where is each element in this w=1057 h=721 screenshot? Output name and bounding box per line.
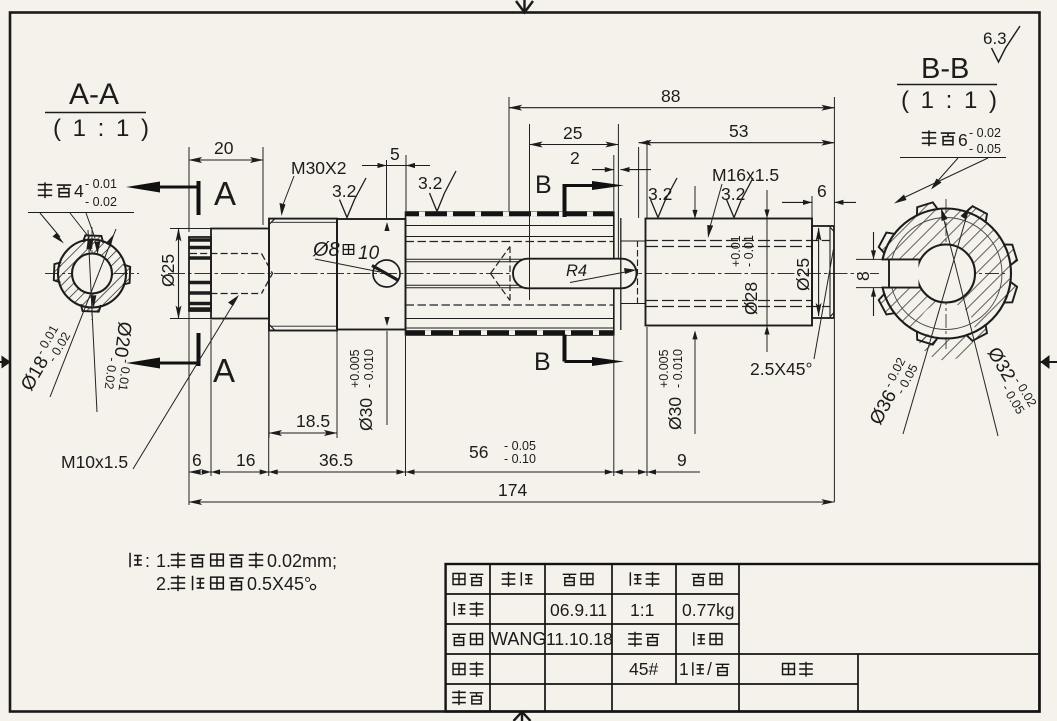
svg-text:- 0.010: - 0.010 [362,349,376,388]
A-A dim Ø20 (rotated) [87,230,138,412]
dim Ø28 label [729,210,770,335]
svg-text:- 0.010: - 0.010 [671,349,685,388]
surface mark 3.2 #4 [721,178,753,218]
svg-text:- 0.05: - 0.05 [969,142,1001,156]
svg-text:Ø25: Ø25 [158,254,178,287]
svg-text:+0.005: +0.005 [657,349,671,388]
A-A dim Ø18 (rotated) [15,229,116,397]
leader 2.5X45 [750,249,834,379]
svg-text:A: A [213,352,235,389]
svg-text:Ø30: Ø30 [356,398,376,431]
splined section Ø30 (56mm) [406,212,614,335]
dim 20 [189,138,263,160]
svg-text:- 0.05: - 0.05 [504,439,536,453]
dim 174 [189,480,834,502]
svg-text:- 0.01: - 0.01 [85,177,117,191]
A-A hatched ring [58,240,126,308]
undercut groove between spline and Ø28 [621,218,646,330]
row 4: 审核 45# 1件/台 图号 [453,659,813,679]
svg-text:Ø20: Ø20 [110,320,135,358]
shaft section Ø30 plain with Ø8 hole [337,219,406,330]
svg-text:- 0.02: - 0.02 [969,126,1001,140]
title block row 1: 项目 负责 日期 比例 重量 [453,572,722,587]
B-B centerlines [870,199,1008,349]
svg-text:9: 9 [677,450,687,470]
A-A spline teeth (4) [54,235,130,311]
dim 53 [639,121,835,143]
svg-text:10: 10 [358,243,380,264]
dim 6 end cap [782,181,856,205]
label M30X2 [280,158,347,216]
hidden M10 tapped hole (dashed) [190,254,273,294]
extension lines top [189,97,834,300]
hidden keyway runout (dashed triangle) [491,247,511,301]
svg-text:36.5: 36.5 [319,450,353,470]
svg-text:20: 20 [214,138,234,158]
svg-text:Ø30: Ø30 [665,397,685,430]
svg-text:1:1: 1:1 [630,600,654,620]
svg-text:( 1 : 1 ): ( 1 : 1 ) [53,115,152,142]
svg-text:B: B [534,348,551,376]
svg-text:5: 5 [390,144,400,164]
svg-text:174: 174 [498,480,527,500]
svg-text:M30X2: M30X2 [291,158,346,178]
svg-text:4: 4 [74,181,84,201]
svg-text:6: 6 [817,181,827,201]
svg-text:R4: R4 [566,262,587,280]
svg-text::: : [145,551,150,571]
A-A title [45,78,152,142]
svg-text:1.: 1. [156,551,171,571]
dim 88 [509,86,834,108]
svg-text:/: / [707,659,712,679]
svg-text:0.77kg: 0.77kg [682,600,735,620]
svg-text:06.9.11: 06.9.11 [550,600,607,620]
svg-text:6: 6 [958,130,968,150]
svg-text:45#: 45# [629,659,658,679]
B-B title [897,53,1000,114]
svg-text:2.: 2. [156,574,171,594]
B-B spline teeth (8) [879,202,1017,344]
A-A leaders from label to teeth [40,213,95,238]
svg-text:16: 16 [236,450,255,470]
extension lines bottom [189,186,834,505]
svg-text:3.2: 3.2 [418,173,442,193]
B-B dim Ø36 (rotated) + leader [863,207,970,434]
B-B hatched ring [881,208,1011,360]
svg-text:88: 88 [661,86,680,106]
svg-text:- 0.10: - 0.10 [504,452,536,466]
B-B leaders from label [899,158,988,200]
row 2: 设计 06.9.11 1:1 0.77kg [454,600,734,620]
svg-text:1: 1 [679,659,689,679]
svg-text:0.02mm;: 0.02mm; [267,551,337,571]
svg-text:B-B: B-B [921,53,969,85]
surface finish 6.3 top right [983,26,1020,62]
A-A label 均布4 -0.01/-0.02 [28,177,134,213]
B-B label 均布6 -0.02/-0.05 [900,126,1006,158]
dim 25 keyway [530,123,619,145]
label R4 [566,262,637,283]
svg-text:A: A [214,175,236,212]
svg-text:M10x1.5: M10x1.5 [61,452,128,472]
svg-text:( 1 : 1 ): ( 1 : 1 ) [901,87,1000,114]
svg-text:- 0.02: - 0.02 [85,195,117,209]
svg-text:3.2: 3.2 [721,184,745,204]
shaft section M30X2 thread [269,219,337,331]
label Ø8 deep 10 (italic) [312,239,380,272]
main centerline [168,273,858,275]
end cap Ø25 (6mm) with 2.5X45 chamfer [812,226,834,318]
svg-text:2.5X45°: 2.5X45° [750,359,812,379]
svg-text:A-A: A-A [69,78,119,111]
keyway slot R4 [513,259,637,289]
dim Ø30 left label [348,222,390,431]
label M10x1.5 + leader [61,295,239,472]
svg-text:18.5: 18.5 [296,411,330,431]
svg-text:+0.01: +0.01 [729,235,743,267]
svg-text:53: 53 [729,121,748,141]
keyway groove side lines [406,259,524,287]
row 5: 工艺 [452,690,483,705]
centering mark top [516,0,533,13]
dim row 6/16/36.5/56/9 [189,439,700,475]
svg-text:6: 6 [192,450,202,470]
dim 5 [362,144,430,168]
dim 2 [570,148,651,172]
centering mark bottom [514,712,531,721]
dim Ø25 left [158,229,211,319]
svg-text:25: 25 [563,123,582,143]
row 3: 制图 WANG 11.10.18 材料 数量 [452,629,722,649]
B-B dim Ø32 (rotated) + leader [941,208,1039,436]
dim Ø30 right label [657,210,698,430]
label M16x1.5 [707,165,779,238]
hole Ø8 deep 10 [373,260,400,287]
section cut A top [126,175,236,215]
centering mark right [1040,355,1057,369]
svg-text:B: B [535,171,552,199]
A-A centerlines [45,227,139,320]
surface mark 3.2 #1 [332,178,366,218]
dim 18.5 [269,411,337,433]
svg-text:3.2: 3.2 [332,181,356,201]
section cut B top [535,171,624,217]
svg-text:11.10.18: 11.10.18 [546,629,613,649]
svg-text:8: 8 [853,271,873,281]
dim Ø25 right [793,228,819,316]
centering mark left [0,356,11,369]
svg-text:0.5X45°: 0.5X45° [247,574,311,594]
svg-text:WANG: WANG [491,629,546,649]
svg-text:- 0.01: - 0.01 [742,235,756,267]
svg-text:2: 2 [570,148,580,168]
B-B dim 8 [853,232,882,316]
svg-text:Ø28: Ø28 [741,282,761,315]
shaft section Ø25 (16mm) [211,229,269,319]
splined stub body (left end, A-A cut) [189,237,211,311]
svg-text:Ø8: Ø8 [312,239,340,261]
svg-text:M16x1.5: M16x1.5 [712,165,779,185]
shaft section Ø28 with M16x1.5 tapped hole [646,219,813,326]
surface mark 3.2 #2 [418,171,456,211]
svg-text:6.3: 6.3 [983,29,1007,48]
B-B keyway slot 8mm [879,260,919,286]
svg-text:56: 56 [469,442,488,462]
surface mark 3.2 #3 [648,178,677,218]
svg-text:Ø25: Ø25 [793,258,813,291]
section cut B bottom [534,335,624,377]
section cut A bottom [126,333,235,389]
svg-text:+0.005: +0.005 [348,349,362,388]
